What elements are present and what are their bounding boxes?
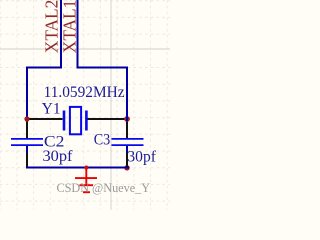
pin Y1.2 (88, 118, 127, 120)
svg-text:XTAL1: XTAL1 (60, 0, 80, 53)
crystal Y1 right plate (85, 111, 88, 131)
svg-text:XTAL2: XTAL2 (42, 0, 62, 53)
svg-text:30pf: 30pf (127, 148, 156, 165)
pin C3.2 (126, 153, 128, 167)
wire over corner node (124, 167, 130, 169)
pin Y1.1 (28, 118, 63, 120)
pin C2.2 (26, 153, 28, 167)
grid dashed lines (0, 0, 167, 210)
svg-text:30pf: 30pf (43, 148, 74, 165)
pin C2.1 (26, 121, 28, 139)
wire stub below C2 (26, 146, 28, 153)
junction node right (XTAL1/Y1/C3) (124, 116, 130, 122)
wire XTAL2 stub + left run (27, 0, 61, 119)
pin C3.1 (126, 121, 128, 139)
solid grid line horizontal (0, 48, 170, 50)
ground symbol (75, 168, 97, 193)
capacitor C3 plates (112, 138, 144, 140)
junction node bottom right corner (124, 165, 129, 170)
wire bottom (26, 167, 128, 169)
wire XTAL1 stub + right run (78, 0, 128, 119)
svg-text:C3: C3 (94, 132, 111, 149)
solid grid line vertical (110, 0, 112, 210)
crystal Y1 body (70, 107, 81, 134)
pin over corner node (126, 163, 128, 166)
svg-text:Y1: Y1 (42, 101, 61, 118)
sheet background (0, 0, 170, 210)
junction node left (XTAL2/Y1/C2) (24, 116, 29, 121)
capacitor C2 plates (11, 138, 43, 140)
crystal Y1 left plate (63, 111, 66, 131)
svg-text:CSDN @Nueve_Y: CSDN @Nueve_Y (57, 180, 151, 195)
junction node at GND tap (84, 166, 88, 170)
wire stub below C3 (126, 146, 128, 153)
svg-text:11.0592MHz: 11.0592MHz (44, 84, 125, 101)
wire over junction (126, 116, 128, 122)
